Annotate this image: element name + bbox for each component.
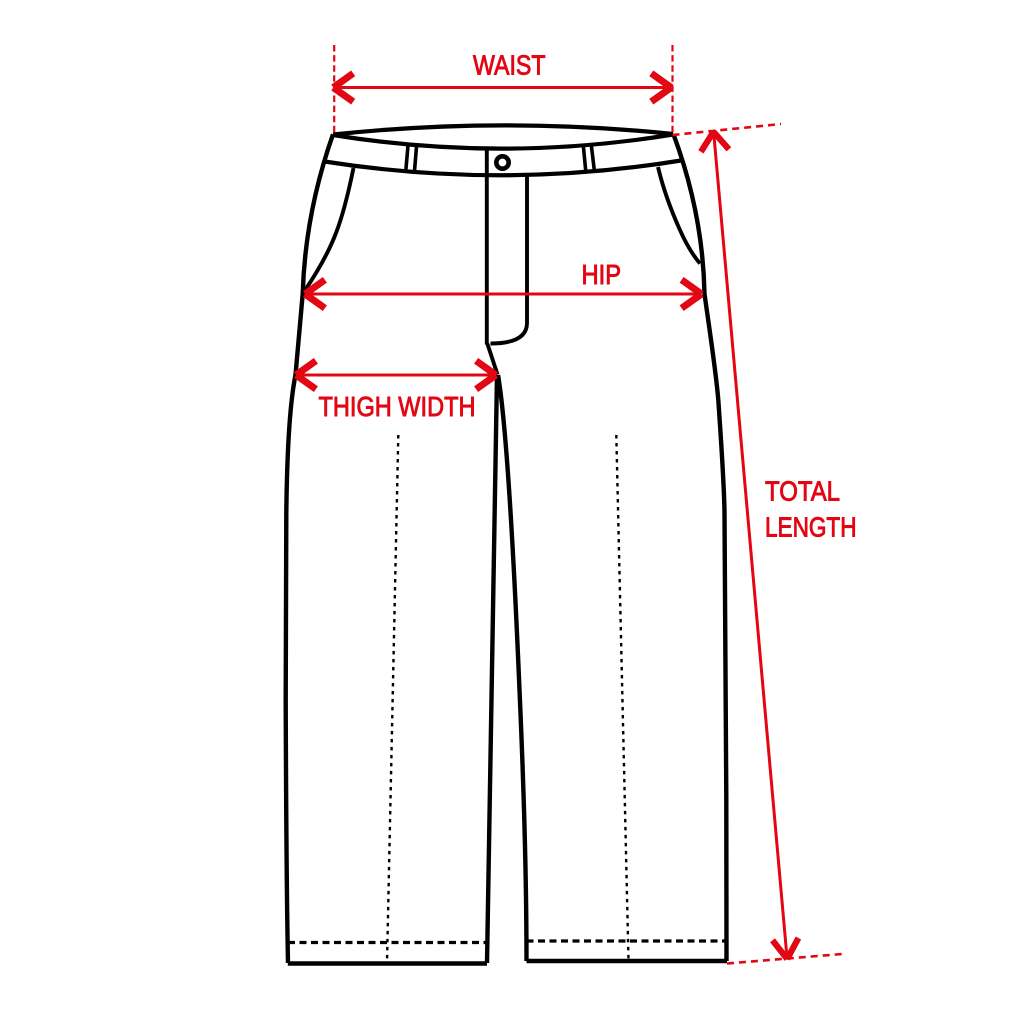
total length dotted extension top xyxy=(673,124,782,135)
thigh arrow left head xyxy=(296,361,316,389)
right inseam xyxy=(498,375,527,961)
waist opening back rim arc xyxy=(333,125,673,134)
right leg crease dotted xyxy=(616,435,628,960)
svg-text:TOTAL: TOTAL xyxy=(765,476,840,507)
svg-text:THIGH WIDTH: THIGH WIDTH xyxy=(319,391,476,422)
thigh arrow shaft xyxy=(297,374,495,377)
waistband bottom seam xyxy=(325,161,682,176)
left leg crease dotted xyxy=(387,435,398,963)
right belt loop xyxy=(583,145,594,171)
fly left line / center front edge xyxy=(485,148,489,345)
left pocket curve xyxy=(305,168,354,291)
total length dashed extension bottom xyxy=(727,954,842,964)
total length top head xyxy=(701,132,729,152)
total length arrow shaft xyxy=(714,134,787,958)
svg-text:WAIST: WAIST xyxy=(473,50,546,81)
left hem bottom edge xyxy=(288,961,487,966)
right waist extension dashed line xyxy=(671,45,673,132)
hip arrow left head xyxy=(305,280,325,308)
svg-text:HIP: HIP xyxy=(582,259,622,290)
left waist extension dashed line xyxy=(333,45,335,134)
hip arrow shaft xyxy=(306,293,701,296)
crotch seam xyxy=(487,344,497,375)
hip arrow right head xyxy=(682,280,702,308)
left inseam xyxy=(487,375,497,963)
waist arrow right head xyxy=(651,73,671,101)
waist opening front rim arc xyxy=(333,135,673,149)
right hem bottom edge xyxy=(527,959,728,964)
thigh arrow right head xyxy=(476,361,496,389)
fly right line with bottom curve xyxy=(491,176,528,344)
waist arrow shaft xyxy=(335,86,671,89)
right hem stitch dashed xyxy=(527,939,727,942)
left belt loop xyxy=(406,146,417,172)
left outer seam xyxy=(286,134,333,963)
left hem stitch dashed xyxy=(288,941,487,944)
waist arrow left head xyxy=(333,73,353,101)
right outer seam xyxy=(674,134,727,961)
svg-text:LENGTH: LENGTH xyxy=(765,512,857,543)
total length bottom head xyxy=(773,938,799,959)
right pocket curve xyxy=(658,167,700,264)
button xyxy=(496,156,508,168)
